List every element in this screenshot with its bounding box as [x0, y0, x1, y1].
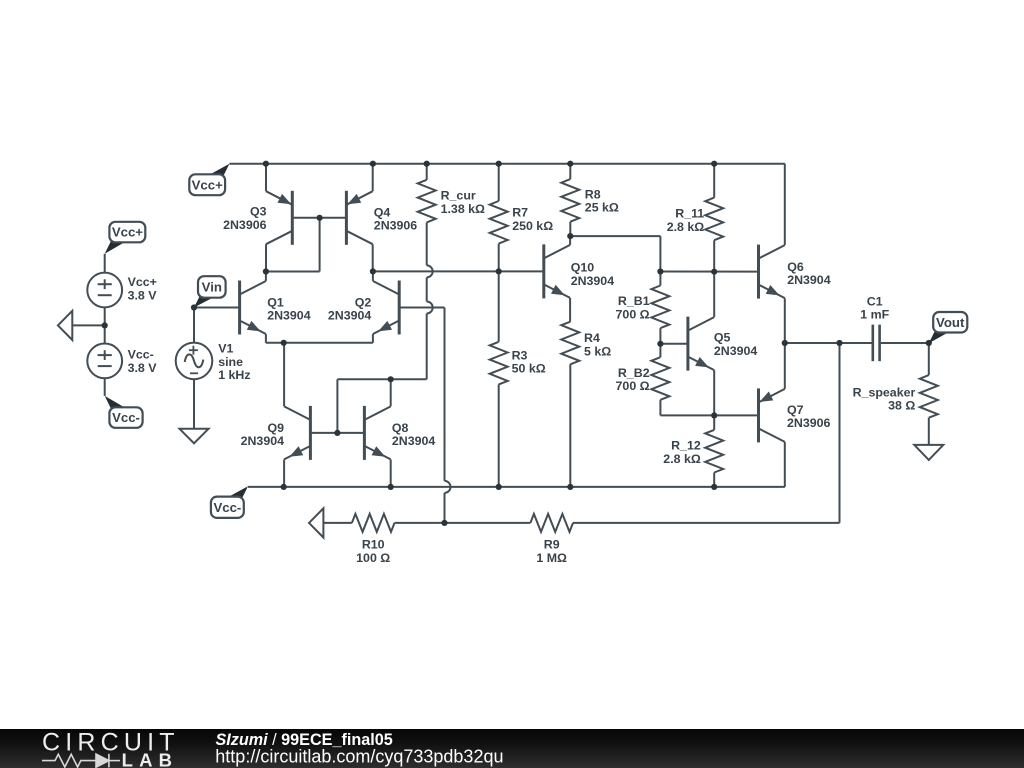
svg-text:R_B1: R_B1	[618, 294, 650, 308]
svg-text:3.8 V: 3.8 V	[128, 288, 158, 302]
svg-text:38 Ω: 38 Ω	[888, 399, 915, 413]
svg-text:2N3904: 2N3904	[241, 434, 285, 448]
svg-text:1 MΩ: 1 MΩ	[536, 551, 567, 565]
svg-text:R4: R4	[584, 331, 600, 345]
svg-text:R9: R9	[544, 538, 560, 552]
svg-text:50 kΩ: 50 kΩ	[512, 362, 546, 376]
svg-text:2N3904: 2N3904	[571, 274, 615, 288]
svg-text:5 kΩ: 5 kΩ	[584, 344, 611, 358]
svg-text:Vcc-: Vcc-	[112, 410, 140, 425]
svg-text:700 Ω: 700 Ω	[616, 379, 650, 393]
svg-text:Vcc-: Vcc-	[128, 348, 154, 362]
svg-text:2N3906: 2N3906	[223, 218, 267, 232]
svg-text:2N3904: 2N3904	[787, 273, 831, 287]
svg-text:Vcc+: Vcc+	[128, 275, 157, 289]
svg-text:2N3906: 2N3906	[374, 219, 418, 233]
svg-text:2.8 kΩ: 2.8 kΩ	[667, 220, 705, 234]
svg-text:250 kΩ: 250 kΩ	[512, 219, 553, 233]
svg-text:R7: R7	[512, 206, 528, 220]
svg-text:25 kΩ: 25 kΩ	[585, 201, 619, 215]
svg-text:Q10: Q10	[571, 261, 595, 275]
svg-text:2N3904: 2N3904	[392, 434, 436, 448]
svg-text:700 Ω: 700 Ω	[616, 308, 650, 322]
svg-text:2N3904: 2N3904	[267, 309, 311, 323]
svg-text:R3: R3	[512, 348, 528, 362]
svg-text:R_cur: R_cur	[441, 189, 476, 203]
svg-text:2.8 kΩ: 2.8 kΩ	[663, 452, 701, 466]
svg-text:Q5: Q5	[714, 331, 731, 345]
svg-text:3.8 V: 3.8 V	[128, 361, 158, 375]
svg-text:R10: R10	[362, 538, 385, 552]
svg-text:Q6: Q6	[787, 260, 804, 274]
svg-text:R_speaker: R_speaker	[853, 385, 916, 399]
svg-text:Vout: Vout	[936, 315, 965, 330]
svg-text:R8: R8	[585, 187, 601, 201]
svg-text:LAB: LAB	[122, 750, 179, 768]
svg-text:2N3904: 2N3904	[714, 344, 758, 358]
svg-text:2N3904: 2N3904	[328, 309, 372, 323]
svg-text:100 Ω: 100 Ω	[356, 551, 390, 565]
svg-text:R_B2: R_B2	[618, 366, 650, 380]
svg-text:Q3: Q3	[250, 205, 267, 219]
svg-text:Q1: Q1	[267, 295, 284, 309]
svg-text:Vcc+: Vcc+	[112, 225, 143, 240]
svg-text:2N3906: 2N3906	[787, 416, 831, 430]
svg-text:sine: sine	[218, 355, 243, 369]
svg-text:http://circuitlab.com/cyq733pd: http://circuitlab.com/cyq733pdb32qu	[215, 747, 503, 767]
svg-text:Q2: Q2	[355, 295, 372, 309]
svg-text:Q8: Q8	[392, 421, 409, 435]
svg-text:Q9: Q9	[267, 421, 284, 435]
svg-text:R_12: R_12	[671, 439, 701, 453]
svg-text:Q7: Q7	[787, 403, 804, 417]
svg-text:1 mF: 1 mF	[860, 308, 889, 322]
svg-text:Vcc-: Vcc-	[213, 500, 241, 515]
svg-text:Vcc+: Vcc+	[192, 177, 223, 192]
svg-text:1 kHz: 1 kHz	[218, 368, 250, 382]
svg-text:Vin: Vin	[202, 280, 222, 295]
svg-text:C1: C1	[867, 294, 883, 308]
svg-text:Q4: Q4	[374, 205, 391, 219]
svg-text:1.38 kΩ: 1.38 kΩ	[441, 202, 485, 216]
svg-text:R_11: R_11	[675, 207, 704, 221]
svg-text:V1: V1	[218, 342, 233, 356]
